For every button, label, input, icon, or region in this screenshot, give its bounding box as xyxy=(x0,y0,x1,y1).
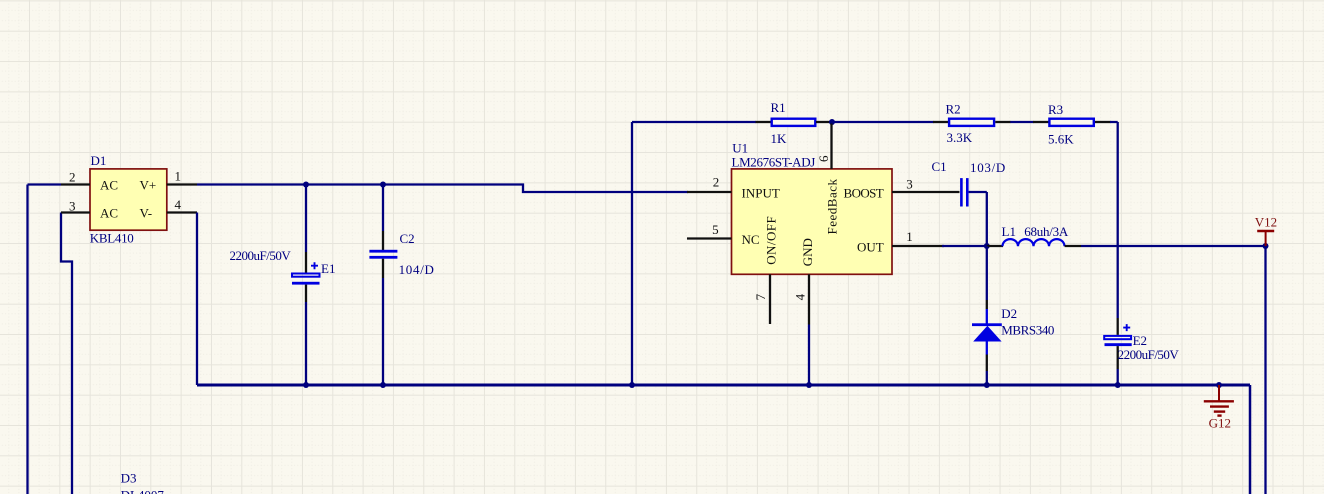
wire: left AC vertical bus xyxy=(26,185,28,494)
diode D2 pin top (black) xyxy=(986,300,988,309)
svg-text:1K: 1K xyxy=(771,131,788,146)
junction U1 GND/ground xyxy=(806,382,812,388)
junction C2/top rail xyxy=(380,182,386,188)
svg-text:R3: R3 xyxy=(1048,102,1063,117)
resistor R1 pin right xyxy=(816,121,832,123)
svg-text:INPUT: INPUT xyxy=(742,186,780,201)
diode D2 lead (blue) xyxy=(986,309,988,324)
power port V12 stem xyxy=(1265,231,1267,246)
junction at R1 right / U1 pin6 xyxy=(829,119,835,125)
svg-text:MBRS340: MBRS340 xyxy=(1001,322,1054,337)
D1 pin 1 xyxy=(167,183,197,185)
diode D2 pin bottom (black) xyxy=(986,355,988,372)
wire: L1 to V12 junction xyxy=(1081,245,1266,247)
U1 pin 4 GND (bottom) xyxy=(808,274,810,324)
ground G12 bar 3 xyxy=(1214,410,1225,412)
resistor R1 pin left xyxy=(756,121,772,123)
inductor L1 pin left (black) xyxy=(987,245,1003,247)
svg-text:6: 6 xyxy=(816,155,831,162)
svg-text:ON/OFF: ON/OFF xyxy=(764,216,779,265)
wire: D2 top lead xyxy=(986,246,988,300)
svg-text:GND: GND xyxy=(800,238,815,266)
ground G12 stem xyxy=(1218,385,1220,401)
U1 pin 2 INPUT xyxy=(687,191,732,193)
U1 pin 3 BOOST xyxy=(892,191,960,193)
U1 pin 7 ON/OFF (bottom) xyxy=(769,274,771,324)
U1 pin 6 FeedBack (top) xyxy=(830,124,832,169)
capacitor C2 bottom plate xyxy=(369,256,397,259)
diode D2 triangle xyxy=(973,326,1001,342)
wire: V+ top rail with jog to U1 INPUT xyxy=(197,185,688,193)
svg-text:D3: D3 xyxy=(121,470,137,485)
wire: ground rail drop at right xyxy=(1249,385,1252,494)
wire: U1 OUT to junction xyxy=(942,245,987,247)
power port V12 bar xyxy=(1257,230,1274,233)
capacitor E2 pin bottom (black) xyxy=(1117,346,1119,369)
wire: U1 GND pin to ground rail xyxy=(808,325,810,386)
U1 pin 5 NC xyxy=(687,237,732,239)
svg-text:G12: G12 xyxy=(1209,416,1231,431)
svg-text:R2: R2 xyxy=(946,102,961,117)
svg-text:103/D: 103/D xyxy=(970,160,1006,175)
capacitor E1 bottom plate xyxy=(292,282,320,285)
resistor R3 pin right xyxy=(1095,121,1111,123)
capacitor C2 top plate xyxy=(369,250,397,253)
svg-text:2: 2 xyxy=(713,174,720,189)
diode D2 lead bottom (blue) xyxy=(986,341,988,355)
junction feedback/ground xyxy=(629,382,635,388)
ground G12 bar 4 xyxy=(1217,414,1221,416)
capacitor E2 bottom plate xyxy=(1105,343,1132,346)
wire: to D1 pin 2 xyxy=(28,183,62,185)
wire: R3 to corner down to E2 xyxy=(1110,122,1118,318)
wire: ground rail xyxy=(197,384,1250,387)
wire: R2 to R3 xyxy=(1010,121,1033,123)
capacitor C2 pin top (black) xyxy=(382,231,384,250)
svg-text:V12: V12 xyxy=(1255,215,1277,230)
svg-text:2200uF/50V: 2200uF/50V xyxy=(230,248,292,263)
svg-text:AC: AC xyxy=(100,178,118,193)
svg-text:3: 3 xyxy=(906,176,913,191)
svg-text:U1: U1 xyxy=(732,140,748,155)
svg-text:5.6K: 5.6K xyxy=(1048,131,1074,146)
wire: C2 bottom lead xyxy=(382,278,384,385)
svg-text:4: 4 xyxy=(175,197,182,212)
inductor L1 pin right (black) xyxy=(1065,245,1081,247)
inductor L1 winding xyxy=(1003,239,1065,246)
D1 pin 2 xyxy=(61,183,90,185)
op-amp U1 body xyxy=(732,169,893,274)
wire: feedback R1 to R2 xyxy=(832,121,934,123)
svg-text:C1: C1 xyxy=(932,159,947,174)
junction at OUT / D2 / C1 xyxy=(984,243,990,249)
svg-text:7: 7 xyxy=(753,293,768,300)
wire: E2 bottom lead xyxy=(1117,369,1119,385)
wire: D1 pin4 V- down to ground rail xyxy=(196,213,198,386)
svg-text:E1: E1 xyxy=(321,261,335,276)
capacitor C1 left plate xyxy=(960,178,963,206)
capacitor E2 pin top (black) xyxy=(1117,318,1119,335)
junction E2/ground xyxy=(1115,382,1121,388)
capacitor C1 right plate xyxy=(966,178,969,206)
capacitor E1 pin bottom (black) xyxy=(305,285,307,302)
capacitor E1 plus sign xyxy=(311,262,318,269)
svg-text:DL4007: DL4007 xyxy=(121,488,165,494)
svg-text:3: 3 xyxy=(69,199,76,214)
bridge rectifier D1 body xyxy=(90,169,167,230)
svg-text:4: 4 xyxy=(792,293,807,300)
resistor R2 body xyxy=(949,119,994,126)
ground G12 bar 1 xyxy=(1204,400,1234,402)
capacitor E2 plus sign xyxy=(1123,324,1130,331)
svg-text:3.3K: 3.3K xyxy=(947,130,973,145)
svg-text:R1: R1 xyxy=(771,100,786,115)
svg-text:LM2676ST-ADJ: LM2676ST-ADJ xyxy=(732,155,816,170)
svg-text:NC: NC xyxy=(742,232,760,247)
U1 pin 1 OUT xyxy=(892,245,944,247)
D1 pin 4 xyxy=(167,211,197,213)
junction G12/ground xyxy=(1216,382,1222,388)
resistor R2 pin right xyxy=(995,121,1010,123)
wire: feedback top to R1 xyxy=(632,121,756,123)
svg-text:5: 5 xyxy=(712,222,719,237)
junction at V12 xyxy=(1263,243,1269,249)
svg-text:KBL410: KBL410 xyxy=(90,230,134,245)
svg-text:1: 1 xyxy=(175,168,182,183)
svg-text:V-: V- xyxy=(140,206,153,221)
D1 pin 3 xyxy=(61,211,90,213)
svg-text:L1: L1 xyxy=(1002,224,1016,239)
junction D2/ground xyxy=(984,382,990,388)
resistor R2 pin left xyxy=(933,121,949,123)
wire: feedback left vertical xyxy=(631,122,633,385)
svg-text:D1: D1 xyxy=(91,153,107,168)
svg-text:2: 2 xyxy=(69,169,76,184)
junction C2/ground xyxy=(380,382,386,388)
wire: E1 top lead xyxy=(305,185,307,253)
svg-text:2200uF/50V: 2200uF/50V xyxy=(1118,347,1180,362)
wire: D2 bottom lead xyxy=(986,371,988,385)
svg-text:C2: C2 xyxy=(400,231,415,246)
resistor R3 pin left xyxy=(1033,121,1049,123)
wire: V12 rail down xyxy=(1264,246,1266,494)
svg-text:68uh/3A: 68uh/3A xyxy=(1024,224,1069,239)
wire: C1 right to OUT junction xyxy=(969,192,987,246)
diode D2 cathode bar xyxy=(972,323,1002,326)
resistor R3 body xyxy=(1049,119,1093,126)
wire: C2 top lead xyxy=(382,185,384,232)
svg-text:AC: AC xyxy=(100,206,118,221)
svg-text:D2: D2 xyxy=(1001,306,1017,321)
ground G12 bar 2 xyxy=(1210,405,1229,407)
capacitor E2 top plate xyxy=(1104,336,1131,339)
capacitor E1 pin top (black) xyxy=(305,252,307,273)
wire: E1 bottom lead xyxy=(305,302,307,385)
svg-text:V+: V+ xyxy=(140,178,157,193)
svg-text:OUT: OUT xyxy=(857,239,884,254)
svg-text:1: 1 xyxy=(906,229,913,244)
wire: from D1 pin 3 down-jog-down xyxy=(61,213,72,494)
svg-text:104/D: 104/D xyxy=(399,262,435,277)
resistor R1 body xyxy=(772,119,816,126)
capacitor C2 pin bottom (black) xyxy=(382,259,384,278)
junction E1/ground xyxy=(303,382,309,388)
junction E1/top rail xyxy=(303,182,309,188)
capacitor E1 top plate xyxy=(292,274,320,277)
svg-text:BOOST: BOOST xyxy=(844,186,884,201)
svg-text:FeedBack: FeedBack xyxy=(824,179,839,235)
